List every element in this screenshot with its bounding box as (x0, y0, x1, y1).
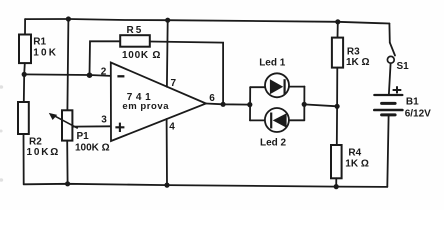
wire top rail to R3 (337, 22, 339, 38)
battery B1 plate short 2 (382, 113, 396, 116)
wire feedback left drop to pin2 node (90, 41, 121, 75)
wire bottom rail V- (24, 184, 388, 187)
op-amp plus sign pin3 (115, 123, 124, 132)
wire R2 bottom to bottom rail (23, 134, 25, 184)
junction dot LED right node (302, 102, 307, 107)
svg-text:R3: R3 (347, 46, 360, 57)
svg-text:4: 4 (169, 121, 175, 132)
potentiometer P1 wiper arrow (49, 113, 78, 128)
svg-text:1K Ω: 1K Ω (345, 159, 369, 170)
svg-text:10KΩ: 10KΩ (27, 147, 61, 158)
junction dot bottom rail / R4 (334, 184, 339, 189)
junction dot bottom rail / pin4 (164, 183, 169, 188)
junction dot bottom rail / P1 (65, 181, 70, 186)
svg-text:3: 3 (101, 115, 107, 126)
svg-text:R2: R2 (29, 137, 42, 148)
wire pin4 supply (166, 119, 168, 185)
wire pin7 supply (166, 20, 169, 87)
wire R4 bottom to bottom rail (335, 178, 337, 186)
wire divider node to R2 (23, 74, 25, 102)
junction dot output/feedback (221, 102, 226, 107)
svg-text:100K Ω: 100K Ω (75, 143, 110, 154)
resistor R4 (331, 145, 342, 178)
junction dot top rail / R3 (335, 19, 340, 24)
battery B1 plate short 1 (382, 102, 396, 105)
junction dot pin2/R5 node (87, 72, 93, 78)
resistor R2 (18, 102, 29, 134)
svg-text:em prova: em prova (122, 101, 169, 112)
junction dot R3/R4 mid node (335, 104, 340, 109)
svg-text:7: 7 (171, 78, 177, 89)
resistor R1 (19, 35, 31, 64)
wire left rail upper (top rail to R1) (24, 19, 26, 34)
wire pin2 input from divider (24, 74, 110, 76)
switch S1 contact circle (387, 56, 394, 63)
op-amp minus sign pin2 (117, 75, 124, 77)
battery B1 plate long 2 (374, 109, 402, 112)
svg-text:R1: R1 (33, 37, 46, 48)
wire battery to bottom rail (387, 116, 388, 186)
wire LED2 stub left (250, 119, 265, 121)
op-amp U1 741 triangle (111, 63, 206, 142)
junction dot top rail / pin7 (165, 18, 170, 23)
svg-text:P1: P1 (77, 131, 90, 142)
resistor R5 (120, 35, 150, 47)
svg-text:R5: R5 (127, 25, 144, 36)
junction dot LED left node (247, 102, 252, 107)
svg-text:100K Ω: 100K Ω (122, 50, 161, 61)
wire LED2 stub right (289, 119, 305, 121)
junction dot divider node (22, 72, 27, 77)
potentiometer P1 body (62, 110, 72, 140)
wire output pin6 (206, 104, 250, 105)
led Led1 (265, 73, 289, 97)
svg-text:6/12V: 6/12V (405, 109, 431, 120)
wire middle column top rail to P1 (67, 19, 68, 110)
led Led2 (265, 108, 289, 132)
switch S1 lever (390, 43, 395, 56)
scan smudges decorative (0, 85, 3, 182)
wire pin3 input from P1 wiper (73, 125, 111, 127)
wire LED1 anode stub (250, 86, 265, 88)
svg-text:R4: R4 (348, 147, 361, 158)
wire switch to battery (389, 63, 391, 94)
battery plus sign (393, 86, 402, 93)
svg-text:1K Ω: 1K Ω (346, 57, 370, 68)
wire R3 bottom to mid node (336, 68, 338, 107)
wire top rail to switch (388, 24, 390, 43)
svg-text:Led 1: Led 1 (259, 57, 286, 68)
wire LED1 cathode stub (289, 86, 305, 88)
wire top rail V+ (25, 19, 389, 24)
svg-text:Led 2: Led 2 (260, 137, 287, 148)
wire LED block left branch (249, 87, 251, 120)
wire mid node to R4 (336, 106, 338, 145)
wire LED block right branch (303, 87, 305, 121)
wire LED block to R3/R4 node (304, 104, 337, 106)
svg-text:S1: S1 (397, 61, 410, 72)
wire R1 bottom to divider node (23, 63, 26, 74)
battery B1 plate long 1 (374, 94, 402, 96)
svg-text:2: 2 (101, 67, 107, 78)
junction dot top rail / P1 column (66, 16, 71, 21)
svg-text:10K: 10K (33, 48, 58, 59)
svg-text:6: 6 (209, 93, 215, 104)
resistor R3 (332, 38, 343, 68)
wire P1 bottom to bottom rail (66, 141, 68, 184)
wire feedback right to output (150, 42, 223, 105)
svg-text:B1: B1 (406, 97, 419, 108)
